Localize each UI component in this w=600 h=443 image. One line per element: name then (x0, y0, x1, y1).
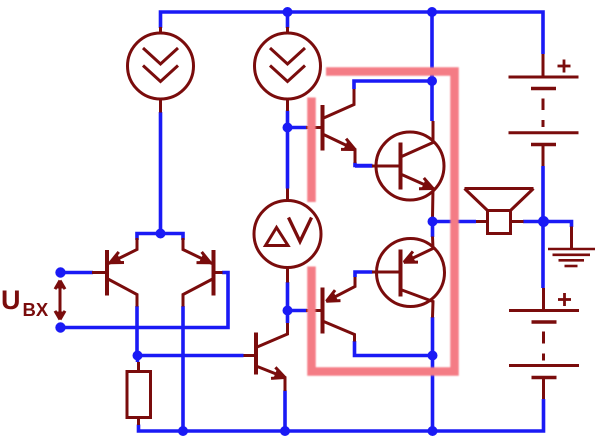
wire diff pair emitter tee (137, 234, 183, 241)
voltage source dV (254, 189, 321, 283)
junction node D (Q4-Q5 collectors) (427, 76, 437, 86)
battery GB2 with + label (509, 288, 579, 399)
transistor Q7 (PNP output, circled) (372, 237, 445, 318)
junction node diff pair tail (156, 229, 166, 239)
wire output node vertical (431, 217, 435, 237)
resistor R1 (127, 362, 151, 425)
ground (548, 227, 595, 267)
wire Q4 collector up to node D (354, 81, 432, 89)
junction node top rail / collector bus (427, 7, 437, 17)
wire Q6 collector to node E (355, 341, 433, 356)
wire Q1 collector down to node A (135, 306, 139, 356)
current source I1 (128, 27, 194, 113)
wire output to speaker left (433, 220, 477, 224)
junction node output (Q5-Q7 emitters) (428, 217, 438, 227)
junction node bottom rail / Q7 collector (428, 426, 438, 436)
wire mid supply to ground (544, 222, 572, 228)
transistor Q2 (PNP, diff pair right) (183, 238, 223, 307)
transistor Q3 (NPN, driver/VAS) (244, 323, 288, 391)
wire top supply rail (161, 12, 544, 54)
junction node E (Q6-Q7 collectors) (428, 351, 438, 361)
transistor Q5 (NPN output, circled) (372, 121, 444, 218)
wire Q3 emitter to bottom rail (283, 391, 287, 432)
wire right vertical top (collector bus) (430, 12, 434, 121)
wire CS1 to diff pair tail (159, 112, 163, 234)
junction node speaker / battery midpoint (538, 216, 549, 227)
wire node B vertical (dV bottom / Q3 collector) (286, 282, 290, 323)
wire CS2 top lead (286, 12, 290, 28)
junction node B (dV / Q3 collector / Q6 base) (283, 306, 293, 316)
transistor Q4 (NPN driver, upper Darlington) (306, 89, 355, 163)
wire node C to Q4 base (288, 126, 308, 130)
wire node A to Q3 base (138, 354, 244, 358)
wire speaker right to mid supply (523, 220, 544, 224)
junction node C (I2 / dV / Q4 base) (283, 123, 293, 133)
node input top terminal (55, 267, 65, 277)
input voltage double arrow (55, 281, 65, 320)
wire Q7 collector to bottom rail (431, 317, 435, 431)
wire bottom supply rail (139, 399, 544, 431)
wire Q5 base segment (355, 164, 373, 168)
highlight band (output stage) (312, 72, 455, 372)
current source I2 (255, 27, 321, 111)
wire input top terminal to Q1 base (61, 271, 94, 275)
wire Q4 emitter to Q5 base (355, 163, 373, 166)
wire CS2 bottom to dV top (286, 111, 290, 189)
transistor Q6 (PNP driver, lower Darlington) (306, 277, 355, 342)
node input bottom terminal (55, 322, 65, 332)
wire Q2 collector down to bottom rail (181, 306, 185, 431)
wire battery midpoint vertical (541, 166, 545, 288)
speaker LS1 (465, 189, 534, 234)
wire Q6 emitter / Q7 base corner (355, 272, 373, 277)
svg-text:U: U (1, 285, 21, 315)
wire input bottom terminal to Q2 base (61, 273, 229, 328)
svg-text:BX: BX (23, 299, 49, 320)
transistor Q1 (PNP, diff pair left) (92, 238, 137, 307)
junction node bottom rail / Q2 collector (178, 426, 188, 436)
battery GB1 with + label (509, 54, 579, 166)
junction node bottom rail / Q3 emitter (280, 426, 290, 436)
wire node B to Q6 base (288, 309, 308, 313)
junction node A (Q1 collector / R1 / Q3 base) (133, 351, 143, 361)
label U BX (1, 285, 49, 320)
junction node top rail / I2 (283, 7, 293, 17)
wire resistor top lead (136, 356, 140, 363)
